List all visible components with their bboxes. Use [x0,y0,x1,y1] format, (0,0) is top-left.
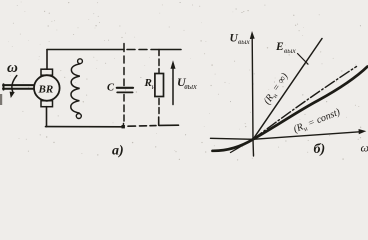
svg-text:а): а) [112,144,124,159]
svg-text:R: R [144,77,152,89]
wire bottom dashed segment [128,125,156,128]
load branch stub top [158,50,160,56]
E line tail below origin [231,139,254,152]
svg-text:вых: вых [184,82,197,91]
load branch dashes lower [158,99,160,114]
junction bottom node [122,125,125,128]
resistor RH body [155,74,164,97]
EMF line E vyh [253,39,322,140]
characteristic RH = infinity dash-dot line [253,67,357,140]
inductor winding L [71,64,80,113]
load branch stub bottom [158,117,160,125]
svg-text:E: E [275,41,284,53]
brush top [41,69,53,75]
coil terminal bottom [76,114,81,119]
wire bottom right solid [159,124,179,126]
wire left vertical bottom [46,107,48,127]
svg-text:б): б) [314,142,326,157]
y axis [252,38,253,157]
wire top dashed segment [127,49,147,51]
load branch dashes upper [158,59,160,73]
wire top right solid [151,49,181,51]
x axis [211,132,360,140]
capacitor C dashed branch upper [123,44,125,86]
tachogenerator BR circle [34,75,60,101]
leader line from E label [298,54,309,65]
svg-text:вых: вых [284,46,296,55]
svg-text:BR: BR [38,84,54,96]
svg-text:ω: ω [361,141,368,155]
capacitor C plates [117,87,133,89]
svg-text:ω: ω [7,60,18,76]
wire top horizontal solid [47,49,124,51]
svg-text:вых: вых [238,37,250,46]
svg-text:н: н [152,82,156,91]
capacitor C dashed branch lower [122,95,125,127]
characteristic RH = const thick curve [213,67,368,151]
rotation arrow [12,76,17,93]
wire left vertical top [46,50,48,70]
svg-text:C: C [107,83,115,94]
brush bottom [41,101,53,107]
wire bottom horizontal solid [46,126,125,128]
shaft [3,84,34,89]
coil terminal top [78,59,83,64]
output voltage arrow [172,65,174,105]
